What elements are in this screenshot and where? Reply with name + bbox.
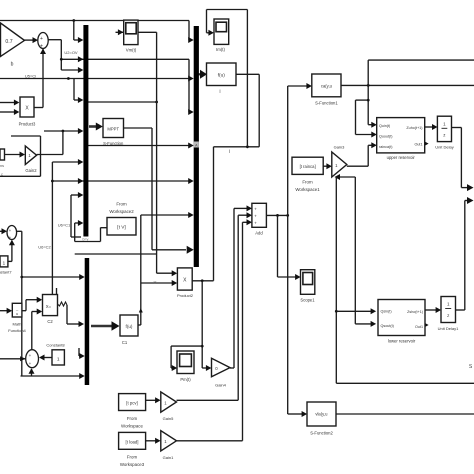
scope Vm(t) — [124, 20, 138, 44]
wire wide signal Mux1 to MPPT — [89, 125, 97, 128]
wire Zsho to Unit Delay1 — [425, 309, 438, 311]
svg-text:From: From — [127, 455, 138, 460]
mux Mux1b lower bus bar — [85, 258, 90, 385]
svg-text:Constant8: Constant8 — [46, 343, 65, 348]
svg-text:MPPT: MPPT — [107, 126, 119, 131]
wire S-Function1 output bus — [341, 84, 474, 86]
mux Mux1 upper bus bar — [83, 25, 88, 237]
wire drop x=202.2 to Gain4 — [201, 281, 203, 368]
svg-text:Gain5: Gain5 — [163, 416, 174, 421]
wire Product3 input 2 — [0, 111, 16, 113]
wire Gain2 output riser into Mux1 — [44, 130, 81, 132]
unit delay block Unit Delay1 — [441, 297, 456, 323]
svg-text:Zuho(t+1): Zuho(t+1) — [406, 126, 422, 130]
wire MPPT output down to Mux2 — [124, 127, 153, 129]
wire Product2 output — [192, 280, 213, 282]
wire gain b output to Sum1 — [23, 39, 33, 41]
svg-text:+: + — [9, 235, 12, 240]
wire branch to Pm scope — [171, 345, 202, 347]
math block Math Function4 — [12, 303, 22, 317]
svg-text:Product2: Product2 — [177, 293, 194, 298]
gain block b value 0.7 — [1, 23, 25, 57]
node junction Quout branch — [367, 99, 370, 102]
node junction Gain2 riser — [62, 130, 65, 133]
product block Product3 — [20, 97, 34, 117]
svg-text:C1: C1 — [122, 340, 128, 345]
wire into Product2 input 2 — [141, 282, 174, 284]
svg-text:Workspace3: Workspace3 — [120, 462, 145, 467]
svg-text:U6=C1: U6=C1 — [58, 223, 71, 228]
svg-text:Qsin(t): Qsin(t) — [381, 310, 392, 314]
wire top return line — [368, 59, 474, 61]
node junction Pm branch — [201, 345, 204, 348]
wire short vertical into C2 top — [56, 288, 58, 295]
wire drop from U5 bus to Mux1 — [73, 79, 75, 101]
from workspace block [t pcv] — [119, 394, 146, 411]
svg-text:Workspace2: Workspace2 — [109, 209, 134, 214]
wire into Quin — [368, 124, 373, 126]
wire C1 output stub — [138, 324, 141, 326]
wire Unit Delay feedback to edge — [452, 127, 462, 129]
svg-text:rainca(t): rainca(t) — [379, 145, 393, 149]
wire Mux1 output y=102 to V node — [88, 101, 157, 103]
svg-text:From: From — [302, 180, 313, 185]
wire Product3 input 1 — [0, 102, 16, 104]
svg-text:1: 1 — [57, 356, 60, 362]
svg-text:l: l — [220, 89, 221, 94]
wire Gain5 output up to Add input 2 — [177, 399, 239, 401]
subsystem lower reservoir — [378, 300, 425, 336]
from workspace2 block [t V] — [107, 218, 136, 236]
svg-text:Quin(t): Quin(t) — [379, 124, 390, 128]
sum block Sum2 — [7, 226, 17, 240]
wire drop to Qsout — [354, 177, 356, 324]
wire I loop up to Im scope — [246, 10, 248, 147]
wire into S-Function1 — [288, 85, 309, 87]
wire top bus line y=20.5 — [0, 20, 189, 22]
wire bus y=145.5 Mux1 to Mux2 — [88, 145, 192, 147]
gain block Gain3 — [332, 152, 347, 177]
wire Product3 output riser to Sum1 — [34, 107, 43, 109]
svg-text:Gain4: Gain4 — [215, 383, 226, 388]
scope Scope1 — [301, 270, 315, 295]
product block Product2 — [177, 268, 192, 290]
svg-text:Gain2: Gain2 — [25, 168, 37, 173]
svg-text:Im(t): Im(t) — [216, 47, 225, 52]
wire From Workspace2 loop into Mux1 y=223 — [75, 222, 81, 224]
svg-text:V: V — [154, 280, 157, 285]
wire Constant8 into Sum3 — [44, 357, 52, 359]
wire input to Gain2 — [4, 154, 21, 156]
wire top line elbow down to Mux2 — [188, 21, 190, 41]
svg-text:nstant7: nstant7 — [0, 270, 12, 275]
wire drop to Scope1 — [277, 215, 279, 277]
s-function MPPT — [103, 119, 124, 138]
subsystem upper reservoir — [377, 118, 425, 153]
node junction on U5 bus — [67, 77, 70, 80]
wire V riser down into Product2 input 1 — [157, 272, 174, 274]
wire drop from top line into Mux1 — [73, 21, 75, 41]
svg-text:+: + — [9, 228, 12, 233]
wire elbow into Mux1 y=195 — [71, 194, 81, 196]
svg-text:S-Function1: S-Function1 — [315, 101, 338, 106]
wire Out1 stub lower — [423, 322, 429, 328]
wire Out1 stub upper — [423, 141, 429, 147]
wire riser x=213.5 to I loop — [213, 147, 215, 281]
wire main vertical x=287.7 — [287, 86, 289, 414]
wire loop around Gain2 right — [40, 136, 42, 176]
svg-text:U5=Ci: U5=Ci — [25, 74, 36, 79]
wire [t pcv] to Gain5 — [146, 399, 157, 401]
svg-text:lower reservoir: lower reservoir — [388, 339, 416, 344]
wire bottom bus y=376 into Mux1b — [21, 375, 83, 377]
svg-text:+: + — [40, 44, 43, 50]
wire riser into Sum3 bottom — [31, 369, 33, 376]
svg-text:[t rainca]: [t rainca] — [300, 164, 316, 169]
svg-text:+: + — [40, 36, 43, 42]
svg-text:ns: ns — [0, 164, 4, 168]
svg-text:vla(y,u: vla(y,u — [315, 412, 328, 417]
svg-text:U6=C2: U6=C2 — [38, 245, 51, 250]
node junction on x=52.4 — [51, 180, 54, 183]
node junction Qsin branch — [335, 310, 338, 313]
svg-text:Out1: Out1 — [415, 143, 423, 147]
svg-text:Qsout(t): Qsout(t) — [381, 324, 394, 328]
svg-text:Unit Delay: Unit Delay — [435, 145, 453, 150]
from workspace3 block [t load] — [119, 432, 146, 449]
node junction Add output — [276, 214, 279, 217]
wire branch to Quout — [356, 99, 369, 101]
wire Gain3 output to rainca input — [347, 165, 368, 167]
svg-text:f(u): f(u) — [126, 324, 133, 329]
svg-text:Gain1: Gain1 — [163, 455, 174, 460]
wire V riser up to Vm scope — [156, 32, 158, 273]
wire into Gain4 — [202, 367, 207, 369]
svg-text:f(u): f(u) — [218, 73, 226, 79]
svg-text:+: + — [29, 353, 32, 358]
svg-text:From: From — [116, 202, 127, 207]
wire Gain1 output up to Add input 3 — [177, 440, 243, 442]
wire Add output bus — [266, 214, 287, 216]
wire U6 riser into Mux1 y=162 — [52, 161, 81, 163]
wire loop around Gain2 bottom — [0, 175, 41, 177]
svg-text:+: + — [29, 361, 32, 366]
wire vertical x=52.4 down to C2 — [51, 162, 53, 295]
wire Sum3 output up to C2 input 2 — [31, 312, 33, 350]
svg-text:0.7: 0.7 — [5, 39, 12, 45]
constant block Constant8 — [52, 350, 64, 365]
svg-text:Function4: Function4 — [8, 328, 26, 333]
svg-text:[t V]: [t V] — [117, 225, 126, 231]
wire Sum2 output down the left side — [17, 230, 22, 232]
scope Pm(t) — [177, 351, 194, 374]
svg-text:From: From — [127, 416, 138, 421]
svg-text:u: u — [16, 312, 18, 316]
svg-text:Zsho(t+1): Zsho(t+1) — [407, 310, 423, 314]
node junction on I loop — [246, 145, 249, 148]
wire loop around Gain2 top — [11, 135, 41, 137]
wire elbow into Mux1b y=356 — [78, 348, 80, 356]
gain block Gain4 — [212, 358, 231, 377]
wire C2 output loop into Mux1b — [58, 302, 68, 306]
svg-text:Out1: Out1 — [415, 325, 423, 329]
wire bus y=215 to Mux2 — [141, 214, 192, 216]
wire bus y=181 Mux1 to Mux2 — [52, 180, 192, 182]
wire Gain4 output up to Add input 1 — [230, 367, 234, 369]
wire vertical x=140.8 C1 riser — [140, 215, 142, 325]
wire outer return bottom line — [336, 382, 474, 384]
svg-text:Pm(t): Pm(t) — [180, 377, 191, 382]
function block C1 — [120, 315, 138, 336]
wire Gain2 output elbow — [62, 131, 64, 155]
wire stub y=253.5 — [75, 253, 157, 255]
svg-text:Scope1: Scope1 — [300, 298, 315, 303]
svg-text:S-Function: S-Function — [103, 141, 124, 146]
mux Mux2 bus bar — [194, 26, 199, 267]
wire Sum1 output elbow — [48, 39, 62, 41]
node junction main riser — [286, 214, 289, 217]
svg-text:Gain3: Gain3 — [334, 145, 345, 150]
gain block Gain5 — [161, 392, 177, 412]
wire U5 bus y=78.5 — [0, 78, 192, 80]
wire wide signal Mux2 to f(u) I — [199, 73, 203, 75]
svg-text:[t pcv]: [t pcv] — [126, 401, 137, 406]
svg-text:ca(y,u: ca(y,u — [321, 84, 333, 89]
wire feedback into Gain3 underside — [339, 176, 355, 178]
node junction S-Fn1 output — [367, 84, 370, 87]
svg-text:Vm(t): Vm(t) — [126, 48, 137, 53]
svg-text:Unit Delay1: Unit Delay1 — [438, 326, 459, 331]
svg-text:X=: X= — [46, 304, 52, 309]
wire Zuho to Unit Delay — [425, 126, 434, 128]
wire Constant7 up to Sum2 — [8, 260, 12, 262]
node junction on top line — [72, 19, 75, 22]
svg-text:l: l — [229, 149, 230, 154]
wire mid bus y=59.3 toward Mux2 — [61, 58, 189, 60]
from workspace1 block [t rainca] — [292, 157, 323, 174]
svg-text:[t load]: [t load] — [126, 439, 139, 444]
sum block Sum3 — [26, 350, 39, 368]
gain block Gain2 — [25, 146, 36, 165]
svg-text:Math: Math — [13, 322, 22, 327]
svg-text:Product3: Product3 — [19, 122, 36, 127]
sum block Add — [252, 203, 267, 227]
node tag A on Mux2 — [194, 142, 199, 148]
s-function S-Function2 — [307, 402, 336, 426]
svg-text:upper reservoir: upper reservoir — [387, 155, 416, 160]
constant block Constant7 — [0, 256, 8, 267]
svg-text:Workspace: Workspace — [121, 424, 143, 429]
svg-text:U2=OV: U2=OV — [64, 50, 78, 55]
svg-text:Workspace1: Workspace1 — [295, 187, 320, 192]
wire input to Math Function4 — [0, 310, 9, 312]
node junction Product2 output — [201, 279, 204, 282]
wire into Mux1b y=277 — [22, 276, 82, 278]
wire long vertical x=336.3 — [335, 177, 337, 384]
node junction y=277 — [20, 276, 23, 279]
source block at left edge — [0, 149, 5, 160]
svg-text:c: c — [1, 173, 3, 177]
wire Unit Delay1 feedback to edge — [456, 309, 465, 311]
s-function S-Function1 — [312, 74, 341, 97]
wire riser to top return line — [367, 60, 369, 125]
svg-text:S-Function2: S-Function2 — [310, 431, 333, 436]
wire Math Function4 to C2 input 1 — [22, 310, 26, 312]
node junction V line — [155, 101, 158, 104]
wire From Workspace1 to Gain3 — [323, 165, 328, 167]
svg-text:C2: C2 — [47, 319, 53, 324]
function block f(u) current I — [207, 63, 237, 86]
unit delay block Unit Delay — [437, 116, 451, 141]
wire wide signal Mux1b to C1 — [91, 325, 112, 328]
svg-text:Add: Add — [255, 231, 263, 236]
svg-text:Quout(t): Quout(t) — [379, 135, 393, 139]
block C2 — [43, 295, 58, 316]
wire branch into Qsin — [336, 310, 372, 312]
wire S-Function2 output bus — [336, 413, 474, 415]
wire [t load] to Gain1 — [146, 440, 157, 442]
scope Im(t) — [214, 19, 229, 44]
sum block Sum1 — [38, 33, 48, 49]
wire into S-Function2 — [288, 413, 304, 415]
svg-text:b: b — [11, 62, 14, 68]
wire f(u) I output loop — [236, 73, 259, 75]
svg-text:b=v: b=v — [83, 238, 89, 242]
wire input to Sum2 — [0, 230, 4, 232]
gain block Gain1 — [161, 431, 177, 451]
